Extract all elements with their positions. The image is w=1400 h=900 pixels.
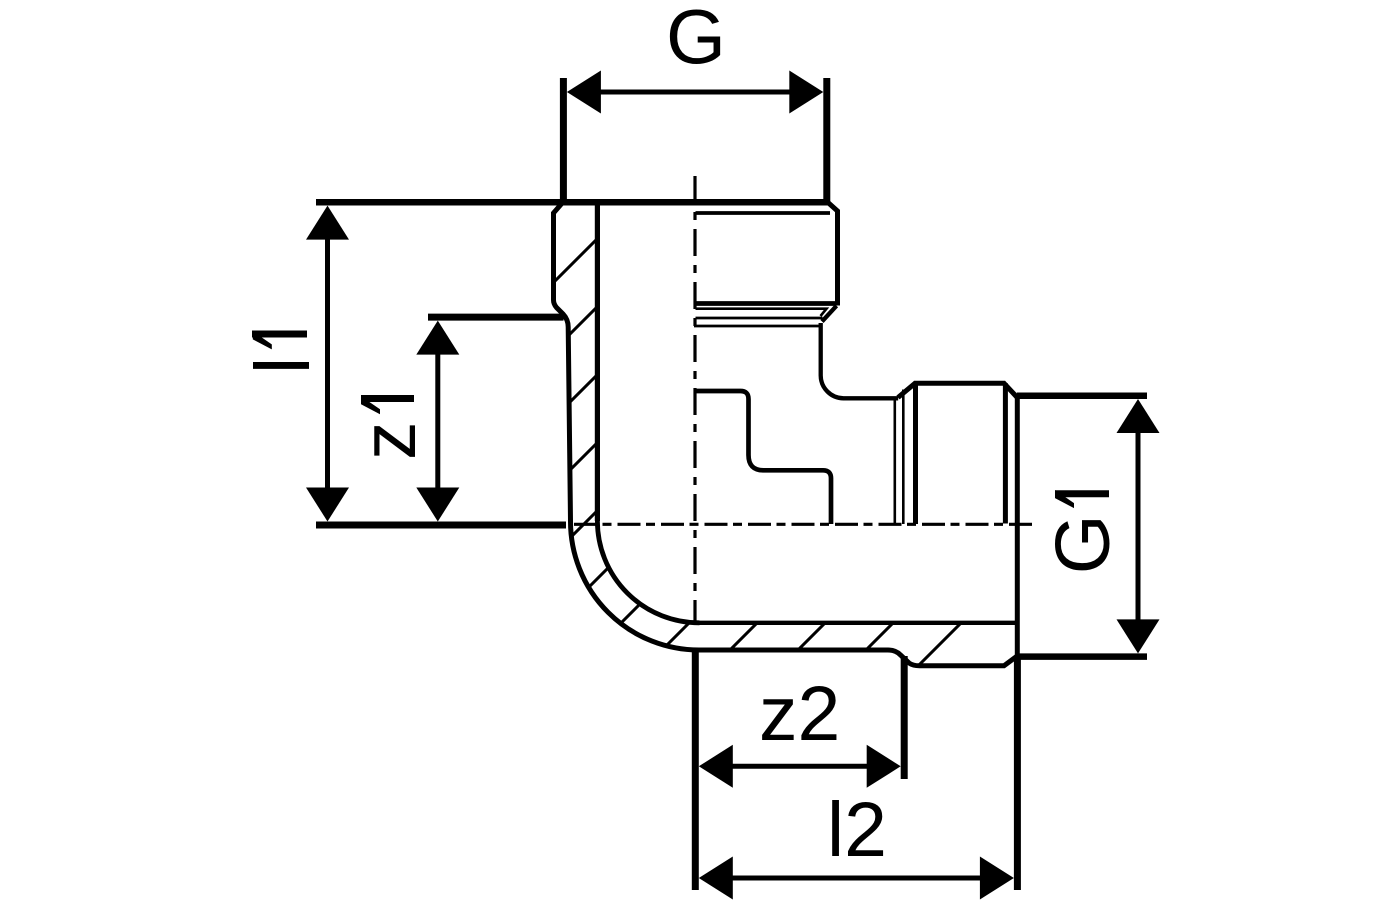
bottom wall top surface line: [700, 621, 1017, 625]
dimension G1 line: [1136, 431, 1141, 622]
l1 arrow top: [306, 206, 349, 240]
z1 arrow bottom: [416, 488, 459, 522]
svg-text:l: l: [240, 357, 326, 374]
left outer wall with chamfer and jog, elbow arc, bottom wall, step: [554, 202, 1017, 666]
G arrow right: [789, 71, 823, 114]
top port: thin runout line 1: [696, 309, 827, 316]
svg-text:z2: z2: [759, 671, 840, 757]
right port: face chamfer ring line: [1003, 383, 1008, 523]
G1 arrow bottom: [1117, 619, 1160, 653]
right port: runout end line: [913, 383, 918, 524]
dimension l1 line: [325, 237, 330, 489]
dimension G extension lines: [563, 78, 826, 206]
label l1 (rotated): [240, 331, 326, 374]
label G1 (rotated): [1040, 490, 1126, 574]
G1 arrow top: [1117, 399, 1160, 433]
z2 arrow right: [867, 745, 901, 788]
centerline vertical: [693, 176, 696, 622]
internal bore step profile: [695, 391, 831, 524]
z2/l2 left extension line (below fitting, on centerline): [692, 650, 699, 891]
hatching (section lines, 45deg): [286, 0, 1400, 700]
svg-text:G: G: [1040, 514, 1126, 574]
right port: thin runout line 1: [893, 398, 896, 524]
bore bottom inner arc: [597, 521, 699, 623]
top port: thin runout line 3: [694, 325, 821, 328]
dimension G1 extension lines: [1017, 396, 1147, 657]
l1 arrow bottom: [306, 488, 349, 522]
l2 right extension line: [1014, 658, 1021, 890]
dimension z1 top extension line: [428, 314, 564, 321]
top port: thin runout line 2: [696, 317, 823, 320]
right port: thin runout line 2: [902, 390, 905, 525]
z2 arrow left: [699, 745, 733, 788]
G arrow left: [567, 71, 601, 114]
top face line + l1 top extension: [316, 199, 827, 206]
l1/z1 bottom extension line: [316, 522, 566, 529]
top port: thread bottom thick line: [694, 301, 837, 306]
svg-text:z: z: [346, 422, 432, 461]
z1 arrow top: [416, 321, 459, 355]
neck line + corner arc to top-port outer wall: [821, 323, 899, 398]
svg-text:l2: l2: [827, 787, 887, 873]
dimension l2 line: [730, 876, 982, 881]
label z1 (rotated): [346, 396, 432, 460]
fitting outline: [554, 199, 1018, 666]
inner wall left: [595, 199, 600, 521]
dimension G line: [599, 90, 791, 95]
face top chamfer + boss top + left chamfer: [898, 383, 1017, 397]
right port face: [1015, 396, 1020, 658]
l2 arrow right: [980, 857, 1014, 900]
top port: outer chamfer to body: [822, 306, 837, 322]
dimension z1 line: [435, 352, 440, 489]
dimension z2 line: [730, 764, 869, 769]
z2 right extension line: [901, 656, 908, 779]
top port: chamfer ring line: [696, 211, 831, 215]
svg-text:G: G: [666, 0, 726, 81]
l2 arrow left: [699, 857, 733, 900]
centerline horizontal: [574, 523, 1032, 526]
top right chamfer + right outer wall: [828, 203, 838, 306]
